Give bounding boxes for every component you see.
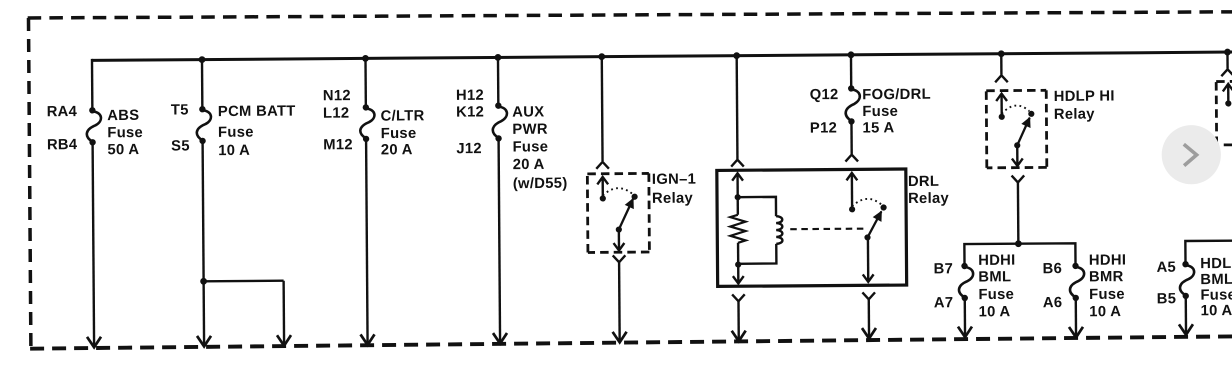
wire C/LTR fuse to bottom: [366, 139, 368, 344]
DRL coil input arrow: [736, 174, 739, 197]
node PCM branch junction: [200, 278, 207, 285]
wire bus to PCM fuse: [201, 60, 204, 110]
node HDHI bar junction: [1015, 240, 1022, 247]
node right relay bus junction: [1224, 49, 1231, 56]
wire FOG fuse to DRL relay: [850, 121, 853, 153]
svg-text:Fuse: Fuse: [107, 125, 143, 141]
arrow PCM branch exit: [277, 335, 291, 346]
wire DRL coil branch bottom: [738, 244, 776, 264]
svg-text:HDHI: HDHI: [978, 253, 1015, 269]
svg-text:BML: BML: [1200, 272, 1232, 288]
svg-text:Q12: Q12: [810, 87, 839, 103]
connector arrow out of DRL relay: [862, 292, 875, 299]
node IGN-1 bus junction: [598, 53, 605, 60]
DRL output arrow: [867, 237, 870, 280]
IGN-1 output arrow: [618, 230, 621, 250]
inductor DRL relay coil: [776, 216, 782, 244]
wire HDLO fuse to bottom: [1185, 296, 1188, 334]
arrow DRL wire exit: [862, 328, 876, 339]
outer dashed border left: [28, 18, 30, 348]
connector arrow into IGN-1 relay: [596, 162, 609, 169]
svg-text:J12: J12: [456, 141, 482, 157]
fuse HDHI BML 10A: [961, 263, 967, 269]
bus wire (battery feed): [92, 52, 1232, 60]
HDLP HI contact travel dotted arc: [1002, 105, 1030, 113]
svg-text:T5: T5: [171, 102, 189, 118]
outer dashed border top: [28, 9, 1232, 21]
svg-text:Fuse: Fuse: [512, 139, 548, 155]
DRL coil output arrow: [737, 265, 740, 283]
DRL switch armature: [867, 212, 881, 238]
svg-text:AUX: AUX: [512, 104, 544, 120]
node right relay contact: [1225, 100, 1231, 106]
svg-text:ABS: ABS: [107, 108, 139, 124]
wire bus to AUX fuse: [497, 57, 500, 105]
svg-text:L12: L12: [323, 106, 350, 122]
svg-text:10 A: 10 A: [1201, 303, 1232, 319]
wire HDLP HI relay to fuse bar: [1017, 182, 1020, 244]
svg-text:FOG/DRL: FOG/DRL: [862, 87, 931, 104]
carousel next button: [1162, 125, 1221, 184]
svg-text:BML: BML: [978, 269, 1011, 285]
svg-text:Fuse: Fuse: [218, 125, 254, 141]
svg-text:20 A: 20 A: [381, 142, 413, 158]
svg-text:S5: S5: [171, 138, 190, 154]
svg-text:PWR: PWR: [512, 122, 548, 138]
svg-text:A6: A6: [1043, 295, 1063, 311]
node HDLP HI common contact: [999, 114, 1005, 120]
arrow HDLO exit: [1179, 324, 1193, 335]
right relay input arrow: [1227, 85, 1230, 103]
DRL contact travel dotted arc: [852, 199, 882, 207]
svg-text:15 A: 15 A: [862, 120, 894, 136]
node C/LTR bus junction: [362, 55, 369, 62]
HDLP HI output arrow: [1016, 145, 1019, 165]
wire bus to DRL relay coil: [735, 56, 738, 159]
svg-text:50 A: 50 A: [107, 142, 139, 158]
node HDLP HI fixed contact: [1028, 111, 1034, 117]
svg-text:B7: B7: [933, 261, 953, 277]
connector arrow out of HDLP HI relay: [1012, 175, 1025, 182]
fuse FOG/DRL 15A: [848, 85, 854, 91]
node DRL coil top junction: [735, 194, 741, 200]
IGN-1 coil-side input arrow: [601, 178, 604, 198]
wire PCM branch horizontal: [204, 280, 284, 283]
node IGN-1 armature pivot: [616, 226, 622, 232]
outer dashed border bottom: [30, 336, 1232, 348]
svg-text:H12: H12: [456, 88, 484, 104]
fuse HDLO BML 10A: [1182, 261, 1188, 267]
DRL mechanical linkage dashed: [790, 228, 867, 231]
svg-text:P12: P12: [810, 120, 837, 136]
wire HDHI BMR fuse to bottom: [1075, 298, 1078, 337]
wire bus to HDLP HI relay: [1000, 54, 1003, 75]
svg-text:K12: K12: [456, 104, 484, 120]
relay box IGN-1: [587, 172, 648, 175]
arrow AUX wire exit: [493, 333, 507, 344]
wire IGN-1 relay to bottom: [618, 262, 621, 342]
wire DRL coil branch top: [738, 197, 776, 217]
relay box HDLP HI: [986, 89, 1046, 92]
node DRL switch input contact: [849, 206, 855, 212]
connector arrow out of IGN-1 relay: [613, 255, 626, 262]
svg-text:BMR: BMR: [1089, 269, 1124, 285]
connector arrow into HDLP HI relay: [995, 75, 1008, 82]
IGN-1 contact travel dotted arc: [603, 188, 633, 195]
connector arrow into DRL switch: [845, 155, 858, 162]
node IGN-1 common contact: [600, 195, 606, 201]
wire DRL coil-top to resistor: [737, 197, 740, 215]
HDLP HI input arrow: [1000, 95, 1003, 117]
node IGN-1 fixed contact: [631, 194, 637, 200]
svg-text:A7: A7: [934, 295, 954, 311]
wire PCM fuse down: [203, 141, 205, 346]
node DRL coil bottom junction: [735, 261, 741, 267]
wire ABS fuse to bottom: [93, 142, 94, 346]
svg-text:PCM BATT: PCM BATT: [218, 104, 296, 121]
node HDLP HI armature pivot: [1014, 142, 1020, 148]
svg-text:C/LTR: C/LTR: [381, 108, 425, 124]
svg-text:Fuse: Fuse: [978, 287, 1014, 303]
fuse ABS 50A: [89, 107, 95, 113]
node AUX PWR bus junction: [495, 54, 502, 61]
HDLP HI switch armature: [1017, 118, 1030, 146]
svg-text:Relay: Relay: [1054, 107, 1096, 123]
wire PCM branch down: [282, 281, 285, 345]
svg-text:Fuse: Fuse: [862, 104, 898, 120]
wire HDHI BML fuse to bottom: [964, 298, 967, 336]
wire DRL relay to bottom: [868, 299, 871, 338]
svg-text:Fuse: Fuse: [1200, 287, 1232, 303]
node DRL armature pivot: [864, 234, 870, 240]
node HDLP HI bus junction: [998, 50, 1005, 57]
wire bus corner to ABS fuse: [91, 59, 94, 110]
wire bus to FOG/DRL fuse: [850, 55, 853, 89]
node DRL switch fixed contact: [880, 204, 886, 210]
svg-text:RB4: RB4: [47, 137, 78, 153]
arrow DRL coil wire exit: [732, 331, 746, 342]
svg-text:20 A: 20 A: [513, 157, 545, 173]
svg-text:B6: B6: [1042, 261, 1062, 277]
svg-text:N12: N12: [323, 88, 351, 104]
connector arrow out of DRL coil: [732, 294, 745, 301]
arrow HDHI BML exit: [958, 327, 972, 338]
fuse AUX PWR 20A: [495, 102, 501, 108]
wire DRL coil to bottom: [737, 301, 740, 341]
wire HDHI fuse feed bar: [964, 243, 1075, 266]
fuse PCM BATT 10A: [199, 106, 205, 112]
arrow PCM wire exit: [197, 336, 211, 347]
wire AUX fuse to bottom: [499, 138, 500, 342]
arrow ABS wire exit: [87, 337, 101, 348]
svg-text:Fuse: Fuse: [381, 126, 417, 142]
relay box right (clipped): [1216, 80, 1232, 83]
svg-text:B5: B5: [1157, 291, 1177, 307]
node PCM BATT bus junction: [199, 56, 206, 63]
arrow C/LTR wire exit: [361, 334, 375, 345]
svg-text:HDLP HI: HDLP HI: [1054, 89, 1115, 105]
svg-text:10 A: 10 A: [979, 304, 1011, 320]
svg-text:Relay: Relay: [652, 191, 694, 207]
wire bus to C/LTR fuse: [364, 58, 367, 107]
wire bus to IGN-1 relay: [601, 57, 604, 161]
wire bus to right relay: [1226, 52, 1229, 68]
svg-text:DRL: DRL: [908, 174, 939, 190]
svg-text:HDHI: HDHI: [1089, 253, 1126, 269]
arrow HDHI BMR exit: [1069, 327, 1083, 338]
svg-text:IGN–1: IGN–1: [652, 172, 696, 188]
svg-text:Relay: Relay: [908, 191, 950, 207]
IGN-1 switch armature: [619, 199, 634, 230]
fuse HDHI BMR 10A: [1072, 263, 1078, 269]
svg-text:10 A: 10 A: [1089, 304, 1121, 320]
resistor DRL relay coil shunt: [730, 215, 745, 243]
svg-text:(w/D55): (w/D55): [513, 176, 568, 192]
wire HDLO fuse feed: [1185, 241, 1232, 265]
svg-text:M12: M12: [323, 137, 353, 153]
node FOG/DRL bus junction: [848, 51, 855, 58]
svg-text:A5: A5: [1156, 260, 1176, 276]
DRL switch input arrow: [851, 174, 854, 209]
svg-text:RA4: RA4: [47, 104, 78, 120]
relay box DRL: [717, 169, 907, 286]
wire resistor to coil-bottom node: [737, 243, 740, 265]
svg-text:Fuse: Fuse: [1089, 287, 1125, 303]
connector arrow into DRL coil: [731, 160, 744, 167]
svg-text:HDLO: HDLO: [1200, 256, 1232, 272]
arrow IGN-1 wire exit: [613, 332, 627, 343]
node DRL coil bus junction: [733, 52, 740, 59]
svg-text:10 A: 10 A: [218, 143, 250, 159]
connector arrow into right relay: [1221, 69, 1232, 76]
fuse C/LTR 20A: [363, 104, 369, 110]
